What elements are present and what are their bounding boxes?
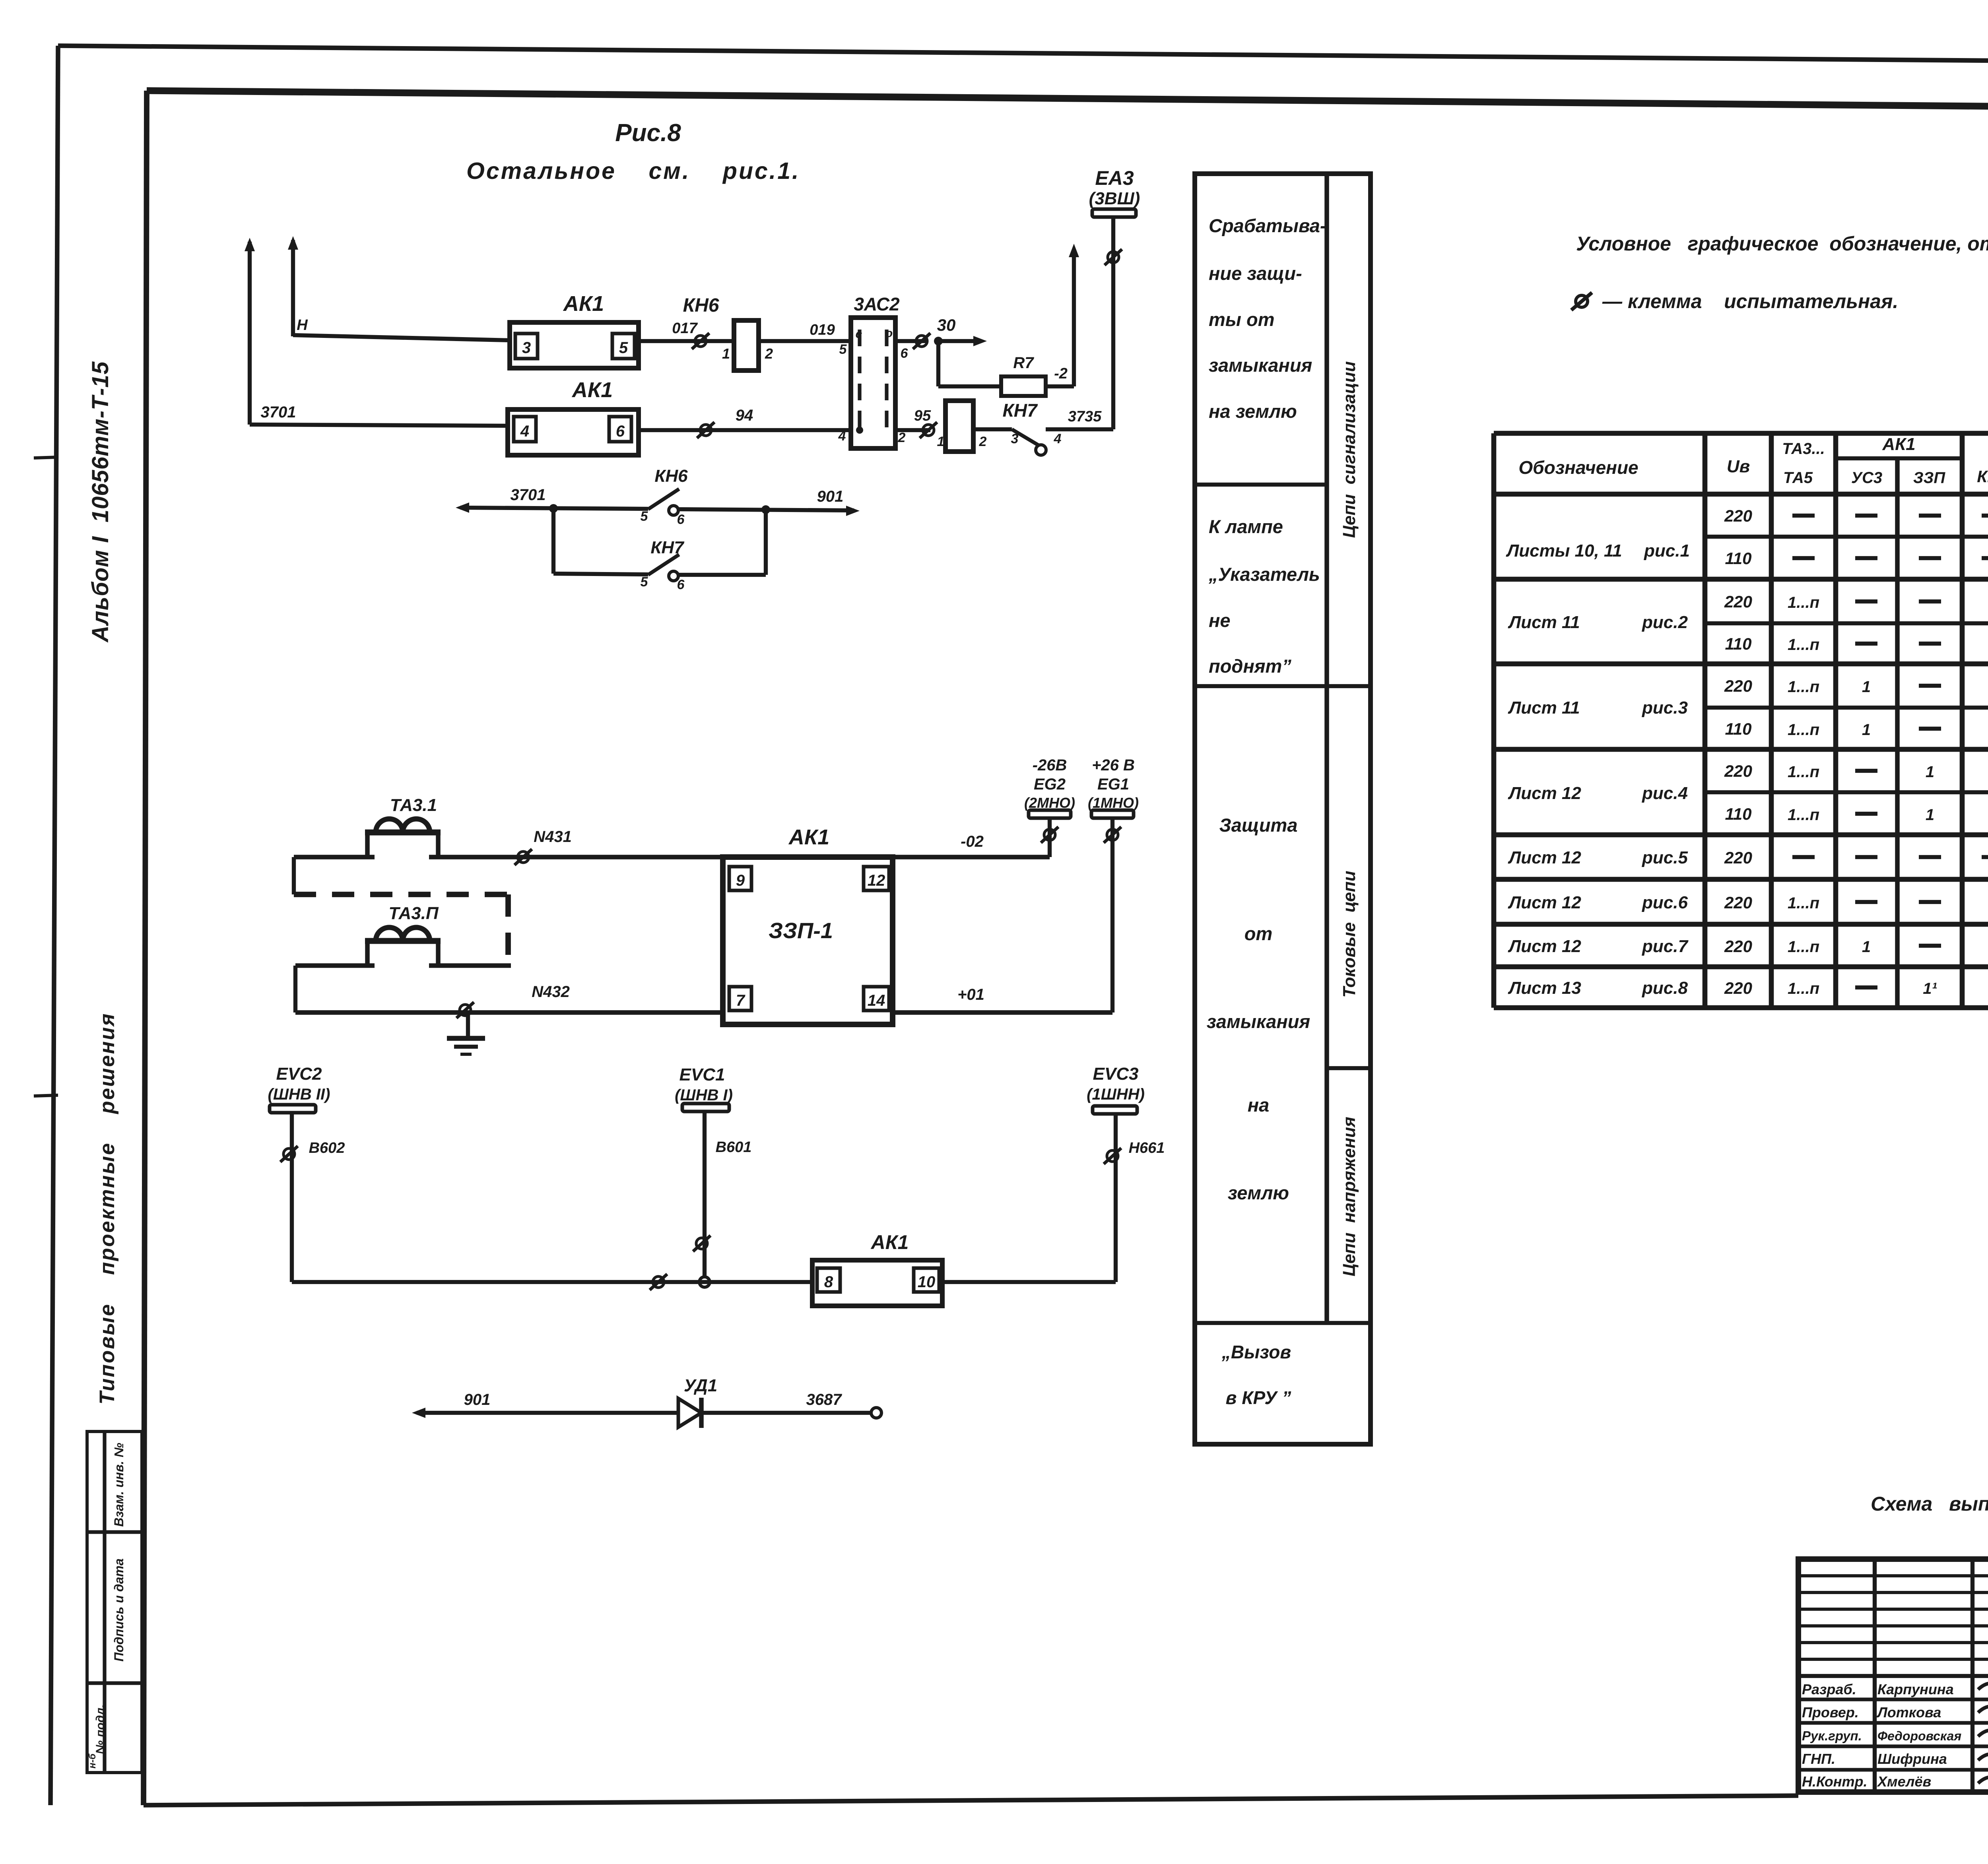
svg-text:замыкания: замыкания [1207, 1011, 1310, 1032]
svg-text:5: 5 [839, 342, 847, 357]
svg-text:220: 220 [1724, 762, 1752, 780]
svg-text:6: 6 [616, 423, 625, 440]
svg-text:5: 5 [641, 509, 648, 524]
svg-text:(3ВШ): (3ВШ) [1089, 189, 1140, 208]
svg-text:ние защи-: ние защи- [1209, 263, 1302, 284]
svg-text:„Вызов: „Вызов [1221, 1342, 1291, 1362]
svg-text:ЕVС3: ЕVС3 [1093, 1064, 1139, 1084]
svg-text:в КРУ ”: в КРУ ” [1226, 1387, 1291, 1408]
svg-text:рис.1: рис.1 [1644, 541, 1690, 561]
svg-text:Федоровская: Федоровская [1877, 1729, 1961, 1743]
svg-text:н-б: н-б [87, 1753, 98, 1768]
svg-text:1: 1 [1862, 721, 1871, 739]
svg-text:3701: 3701 [511, 486, 546, 504]
svg-text:3701: 3701 [261, 403, 296, 421]
svg-text:-2: -2 [1054, 365, 1068, 382]
svg-text:Остальное см. рис.1.: Остальное см. рис.1. [466, 158, 800, 184]
svg-text:94: 94 [736, 407, 753, 424]
svg-text:ТА3...: ТА3... [1782, 440, 1825, 458]
svg-text:1...п: 1...п [1788, 938, 1819, 956]
svg-text:8: 8 [824, 1273, 833, 1291]
svg-text:Листы 10, 11: Листы 10, 11 [1506, 541, 1622, 561]
svg-text:1...п: 1...п [1788, 806, 1819, 824]
svg-text:Обозначение: Обозначение [1518, 457, 1638, 478]
svg-text:Рук.груп.: Рук.груп. [1802, 1728, 1862, 1743]
svg-text:220: 220 [1724, 979, 1752, 997]
svg-text:+01: +01 [957, 986, 984, 1003]
svg-text:Лист 12: Лист 12 [1508, 848, 1581, 867]
svg-text:5: 5 [641, 574, 648, 590]
svg-text:1...п: 1...п [1788, 678, 1819, 696]
svg-text:N432: N432 [532, 983, 570, 1001]
svg-text:4: 4 [520, 423, 529, 440]
svg-text:12: 12 [868, 872, 885, 889]
svg-text:УС3: УС3 [1851, 469, 1882, 487]
svg-text:1: 1 [1862, 678, 1871, 696]
svg-text:поднят”: поднят” [1209, 656, 1291, 677]
svg-text:1: 1 [1926, 763, 1934, 781]
svg-text:Лист 11: Лист 11 [1508, 613, 1580, 632]
svg-text:ты от: ты от [1209, 309, 1275, 330]
svg-text:Лист 12: Лист 12 [1508, 937, 1581, 956]
svg-text:6: 6 [677, 512, 685, 527]
svg-text:о: о [885, 327, 893, 340]
svg-text:30: 30 [937, 316, 956, 334]
svg-text:-26В: -26В [1033, 756, 1067, 774]
svg-text:Разраб.: Разраб. [1802, 1681, 1856, 1697]
svg-text:КН7: КН7 [1002, 400, 1038, 421]
svg-text:рис.2: рис.2 [1642, 613, 1688, 632]
svg-text:1...п: 1...п [1788, 636, 1819, 654]
svg-text:Лист 13: Лист 13 [1508, 978, 1581, 998]
svg-text:220: 220 [1724, 677, 1752, 695]
svg-text:1: 1 [1926, 806, 1934, 824]
svg-text:1...п: 1...п [1788, 594, 1819, 611]
svg-text:— клемма испытательная.: — клемма испытательная. [1602, 290, 1898, 312]
svg-text:95: 95 [914, 407, 931, 424]
svg-text:3: 3 [1011, 431, 1019, 446]
svg-text:6: 6 [901, 346, 909, 361]
svg-text:рис.3: рис.3 [1642, 698, 1688, 718]
svg-text:5: 5 [619, 339, 628, 357]
svg-text:N431: N431 [534, 828, 572, 846]
svg-text:ТА3.1: ТА3.1 [390, 795, 437, 815]
svg-text:220: 220 [1724, 592, 1752, 611]
svg-text:на землю: на землю [1209, 401, 1297, 422]
svg-text:КН7: КН7 [650, 538, 685, 557]
svg-text:ЗЗП-1: ЗЗП-1 [769, 918, 833, 943]
svg-text:3687: 3687 [806, 1391, 843, 1408]
svg-text:4: 4 [1054, 431, 1062, 446]
svg-text:14: 14 [868, 992, 885, 1009]
svg-text:110: 110 [1725, 634, 1752, 653]
svg-text:901: 901 [817, 488, 844, 505]
svg-text:Токовые цепи: Токовые цепи [1340, 871, 1359, 997]
svg-text:Типовые проектные решени: Типовые проектные решения [95, 1012, 119, 1404]
svg-text:КН6: КН6 [654, 466, 688, 486]
svg-text:Цепи напряжения: Цепи напряжения [1340, 1117, 1359, 1276]
svg-text:Uв: Uв [1727, 457, 1750, 476]
svg-text:7: 7 [736, 992, 745, 1009]
svg-text:019: 019 [810, 322, 835, 338]
svg-text:замыкания: замыкания [1209, 355, 1312, 376]
svg-text:Цепи сигнализации: Цепи сигнализации [1340, 361, 1359, 538]
svg-text:-02: -02 [961, 833, 984, 850]
svg-text:В601: В601 [716, 1139, 752, 1156]
svg-text:9: 9 [736, 872, 745, 889]
svg-text:Н.Контр.: Н.Контр. [1802, 1773, 1868, 1790]
svg-text:„Указатель: „Указатель [1208, 564, 1320, 585]
svg-text:+26 В: +26 В [1092, 756, 1135, 774]
svg-text:на: на [1248, 1094, 1270, 1115]
svg-text:КН7: КН7 [1977, 467, 1988, 486]
svg-text:АК1: АК1 [563, 292, 604, 316]
svg-text:Карпунина: Карпунина [1877, 1681, 1954, 1697]
svg-text:(ШНВ I): (ШНВ I) [675, 1086, 733, 1104]
svg-text:ЗЗП: ЗЗП [1913, 469, 1945, 487]
svg-text:ТА5: ТА5 [1783, 469, 1813, 487]
svg-text:3АС2: 3АС2 [854, 294, 900, 314]
svg-text:1...п: 1...п [1788, 894, 1819, 912]
svg-text:Н661: Н661 [1129, 1140, 1165, 1156]
svg-text:Лист 11: Лист 11 [1508, 698, 1580, 718]
svg-text:Подпись и дата: Подпись и дата [112, 1558, 126, 1661]
svg-text:Лист 12: Лист 12 [1508, 784, 1581, 803]
svg-text:ГНП.: ГНП. [1802, 1751, 1835, 1767]
svg-text:1: 1 [1862, 938, 1871, 956]
svg-text:Лист 12: Лист 12 [1508, 893, 1581, 912]
svg-text:110: 110 [1725, 549, 1752, 568]
svg-text:ТА3.П: ТА3.П [388, 904, 439, 923]
svg-text:Схема выполнена на листа: Схема выполнена на листах 10, 11, 12, 13… [1871, 1493, 1988, 1515]
svg-text:901: 901 [464, 1391, 491, 1408]
svg-text:220: 220 [1724, 506, 1752, 525]
svg-text:1...п: 1...п [1788, 763, 1819, 781]
svg-text:Рис.8: Рис.8 [615, 119, 681, 147]
svg-text:Защита: Защита [1219, 815, 1298, 836]
svg-text:Хмелёв: Хмелёв [1877, 1773, 1931, 1790]
svg-text:Провер.: Провер. [1802, 1704, 1859, 1720]
svg-text:R7: R7 [1013, 354, 1034, 372]
svg-text:ЕА3: ЕА3 [1095, 167, 1134, 189]
svg-text:УД1: УД1 [684, 1376, 717, 1395]
svg-text:1...п: 1...п [1788, 980, 1819, 997]
svg-text:Шифрина: Шифрина [1877, 1751, 1947, 1767]
svg-text:6: 6 [677, 577, 685, 592]
svg-text:АК1: АК1 [788, 825, 829, 849]
svg-text:1¹: 1¹ [1923, 980, 1937, 997]
svg-text:В602: В602 [309, 1140, 345, 1156]
svg-text:с: с [856, 328, 862, 341]
svg-text:ЕVС2: ЕVС2 [276, 1064, 322, 1084]
svg-text:АК1: АК1 [870, 1231, 909, 1253]
svg-text:(ШНВ II): (ШНВ II) [268, 1086, 330, 1103]
svg-text:землю: землю [1228, 1182, 1289, 1203]
svg-text:Взам. инв. №: Взам. инв. № [112, 1443, 126, 1527]
svg-text:110: 110 [1725, 720, 1752, 738]
svg-text:рис.7: рис.7 [1642, 937, 1689, 956]
svg-text:2: 2 [979, 434, 987, 449]
svg-text:1: 1 [937, 434, 945, 449]
svg-text:1...п: 1...п [1788, 721, 1819, 739]
svg-text:ЕG1: ЕG1 [1097, 776, 1129, 793]
svg-text:3735: 3735 [1068, 408, 1102, 425]
svg-text:рис.8: рис.8 [1642, 978, 1688, 998]
svg-text:(1ШНН): (1ШНН) [1087, 1086, 1145, 1103]
svg-text:№ подл.: № подл. [94, 1705, 107, 1754]
svg-text:ЕVС1: ЕVС1 [679, 1065, 725, 1084]
svg-text:2: 2 [898, 430, 906, 445]
svg-text:110: 110 [1725, 805, 1752, 823]
svg-text:рис.5: рис.5 [1642, 848, 1688, 867]
svg-text:Альбом I 10656тм-Т-15: Альбом I 10656тм-Т-15 [87, 361, 113, 643]
svg-text:рис.4: рис.4 [1642, 784, 1688, 803]
svg-text:2: 2 [765, 345, 773, 362]
svg-text:АК1: АК1 [1882, 434, 1915, 454]
svg-text:Срабатыва-: Срабатыва- [1209, 215, 1326, 236]
svg-text:К лампе: К лампе [1209, 516, 1283, 537]
svg-text:ЕG2: ЕG2 [1034, 776, 1066, 793]
svg-text:017: 017 [672, 320, 698, 337]
svg-text:220: 220 [1724, 937, 1752, 956]
svg-text:Условное графическое обозна: Условное графическое обозначение, отсутс… [1576, 233, 1988, 255]
svg-text:10: 10 [918, 1273, 936, 1291]
svg-text:АК1: АК1 [571, 378, 613, 402]
svg-text:от: от [1244, 923, 1273, 944]
svg-text:не: не [1209, 610, 1231, 631]
svg-text:1: 1 [722, 345, 730, 362]
svg-text:220: 220 [1724, 893, 1752, 912]
svg-text:Лоткова: Лоткова [1876, 1704, 1941, 1720]
svg-text:220: 220 [1724, 848, 1752, 867]
svg-text:рис.6: рис.6 [1642, 893, 1688, 912]
svg-text:3: 3 [522, 339, 531, 357]
svg-text:КН6: КН6 [683, 295, 719, 316]
svg-text:Н: Н [297, 317, 308, 334]
